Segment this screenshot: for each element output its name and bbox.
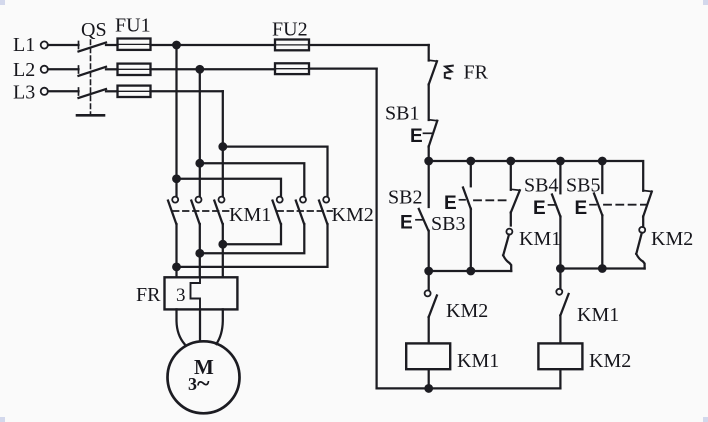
contactor KM1 main pole3 bbox=[214, 197, 224, 224]
wire SB1 to top rail bbox=[428, 147, 430, 162]
node junction L2/bus2 bbox=[197, 66, 204, 73]
wire bus1 vertical bbox=[175, 45, 177, 196]
contactor KM1 main pole1 bbox=[168, 197, 178, 224]
wire FU2 row1 to control drop bbox=[309, 44, 429, 46]
wire QS to FU1 row1 bbox=[106, 44, 118, 46]
contactor KM1 main pole2 bbox=[191, 197, 201, 224]
svg-text:FR: FR bbox=[464, 62, 489, 84]
contactor KM2 aux contact (NO) bbox=[636, 217, 645, 269]
wire FU2 row2 to left control drop bbox=[309, 67, 377, 69]
wire FR to motor phase1 bbox=[177, 309, 185, 344]
pushbutton SB2 (NO) bbox=[400, 161, 429, 234]
wire L1 lead bbox=[48, 44, 79, 46]
wire L3 lead bbox=[48, 90, 79, 92]
svg-text:KM2: KM2 bbox=[651, 228, 693, 250]
wire L2 rail to FU2 bbox=[200, 68, 275, 70]
node rail SB3 bbox=[468, 158, 475, 165]
wire SB4 to right bottom rail bbox=[559, 217, 561, 269]
coil KM1 bbox=[406, 343, 499, 372]
pushbutton SB1 (NC) bbox=[410, 120, 437, 147]
node L1 bbox=[13, 34, 48, 56]
wire bus2 vertical bbox=[199, 69, 201, 196]
wire FU1 row3 to bus3 corner bbox=[151, 90, 223, 92]
wire bus3 to FR box bbox=[222, 224, 224, 277]
node tap bus2 bbox=[197, 160, 204, 167]
fuse FU2 bbox=[272, 19, 309, 75]
wire QS to FU1 row2 bbox=[106, 68, 118, 70]
wire bus2 to FR box bbox=[199, 224, 201, 277]
wire bus1 to FR box bbox=[175, 224, 177, 277]
svg-text:KM2: KM2 bbox=[589, 350, 631, 372]
node return bus3 bbox=[220, 241, 227, 248]
pushbutton SB3 (NO) bbox=[444, 161, 471, 214]
node right rail SB4 bbox=[557, 265, 564, 272]
node return bus1 bbox=[173, 264, 180, 271]
wire control top rail bbox=[429, 161, 644, 191]
svg-text:E: E bbox=[575, 198, 588, 219]
wire tap bus3 to KM2 pole3 bbox=[223, 147, 328, 197]
svg-text:KM1: KM1 bbox=[457, 350, 499, 372]
svg-text:E: E bbox=[533, 198, 546, 219]
wire left control vertical bbox=[375, 69, 377, 389]
coil KM2 bbox=[538, 343, 631, 372]
svg-text:E: E bbox=[400, 213, 413, 234]
wire L2 lead bbox=[48, 68, 79, 70]
svg-text:SB5: SB5 bbox=[566, 175, 600, 197]
node L2 bbox=[13, 59, 48, 81]
svg-text:SB4: SB4 bbox=[524, 175, 558, 197]
svg-text:FU2: FU2 bbox=[272, 19, 308, 41]
svg-text:KM1: KM1 bbox=[519, 228, 561, 250]
node right rail SB5 bbox=[599, 265, 606, 272]
svg-text:SB2: SB2 bbox=[388, 187, 422, 209]
fuse FU1 bbox=[115, 15, 151, 98]
node bottom junction bbox=[425, 385, 432, 392]
svg-text:L3: L3 bbox=[13, 82, 35, 104]
svg-text:KM1: KM1 bbox=[229, 204, 271, 226]
node rail SB4 bbox=[557, 158, 564, 165]
svg-text:FU1: FU1 bbox=[115, 15, 151, 37]
node tap bus3 bbox=[220, 143, 227, 150]
wire L1 rail to FU2 bbox=[177, 44, 276, 46]
contactor KM1 aux contact (NO) bbox=[503, 213, 512, 272]
corner speck bottom-right bbox=[703, 417, 708, 422]
wire SB3 to left bottom rail bbox=[470, 209, 472, 271]
node left rail SB2 bbox=[425, 268, 432, 275]
wire FU1 row2 to bus2 junction bbox=[151, 68, 200, 70]
svg-text:E: E bbox=[444, 193, 457, 214]
node junction L1/bus1 bbox=[173, 42, 180, 49]
wire KM2 pole2 return to bus2 bbox=[200, 224, 304, 253]
svg-text:KM2: KM2 bbox=[332, 204, 374, 226]
wire FR to motor phase3 bbox=[216, 309, 223, 344]
SB5 linkage dashes bbox=[604, 204, 646, 206]
wire tap bus1 to KM2 pole1 bbox=[177, 179, 282, 197]
pushbutton SB5 break contact (NC) bbox=[643, 191, 652, 217]
svg-text:KM1: KM1 bbox=[577, 304, 619, 326]
node rail SB5 bbox=[599, 158, 606, 165]
switch QS bbox=[77, 19, 107, 115]
corner speck top-left bbox=[0, 0, 5, 5]
node rail SB2 bbox=[425, 158, 432, 165]
KM1 linkage dashes bbox=[173, 210, 229, 212]
svg-text:3: 3 bbox=[176, 285, 186, 306]
contactor KM2 main pole2 bbox=[296, 197, 306, 224]
wire KM2 coil to bottom bbox=[559, 369, 561, 388]
svg-text:FR: FR bbox=[136, 284, 161, 306]
wire SB5 to right bottom rail bbox=[601, 215, 603, 268]
wire KM2 pole3 return to bus1 bbox=[177, 224, 328, 267]
wire control bottom rail bbox=[377, 387, 561, 389]
corner speck top-right bbox=[703, 0, 708, 5]
svg-text:KM2: KM2 bbox=[446, 300, 488, 322]
contactor KM2 main pole1 bbox=[273, 197, 283, 224]
wire QS to FU1 row3 bbox=[106, 90, 118, 92]
svg-text:L2: L2 bbox=[13, 59, 35, 81]
contactor KM1 interlock contact (NC) bbox=[556, 269, 568, 344]
pushbutton SB4 (NO) bbox=[533, 161, 560, 219]
svg-text:QS: QS bbox=[81, 19, 107, 41]
svg-text:E: E bbox=[410, 126, 423, 147]
KM2 linkage dashes bbox=[278, 210, 333, 212]
node tap bus1 bbox=[173, 176, 180, 183]
node left rail SB3 bbox=[468, 268, 475, 275]
svg-text:3~: 3~ bbox=[188, 371, 210, 397]
svg-text:SB1: SB1 bbox=[385, 103, 419, 125]
wire FR to motor phase2 bbox=[199, 309, 201, 341]
wire left bottom rail bbox=[429, 270, 512, 272]
wire KM2 pole1 return to bus3 bbox=[223, 224, 281, 244]
relay contact FR (NC) bbox=[429, 60, 453, 84]
wire FR to SB1 bbox=[428, 85, 430, 121]
wire tap bus2 to KM2 pole2 bbox=[200, 163, 304, 196]
SB3 linkage dashes bbox=[474, 199, 509, 201]
wire control drop from L1 bbox=[428, 45, 430, 61]
wire KM1 coil to bottom bbox=[428, 369, 430, 388]
svg-text:SB3: SB3 bbox=[431, 213, 465, 235]
pushbutton SB5 (NO) bbox=[575, 161, 603, 219]
contactor KM2 main pole3 bbox=[319, 197, 329, 224]
svg-text:L1: L1 bbox=[13, 34, 35, 56]
node return bus2 bbox=[197, 250, 204, 257]
motor M 3~ bbox=[168, 341, 240, 413]
wire right bottom rail bbox=[560, 267, 644, 269]
pushbutton SB3 break contact (NC) bbox=[511, 161, 520, 213]
corner speck bottom-left bbox=[0, 417, 5, 422]
wire SB2 to left bottom rail bbox=[428, 231, 430, 271]
node L3 bbox=[13, 82, 48, 104]
node rail KM1aux bbox=[508, 158, 515, 165]
contactor KM2 interlock contact (NC) bbox=[425, 271, 437, 343]
thermal relay FR heater box bbox=[136, 277, 237, 309]
wire FU1 row1 to bus1 junction bbox=[151, 44, 177, 46]
wire bus3 vertical bbox=[222, 91, 224, 196]
